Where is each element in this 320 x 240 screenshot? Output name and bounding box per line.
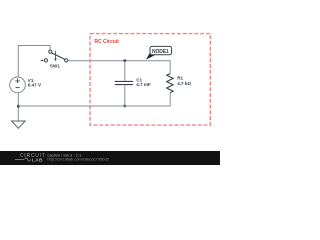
svg-text:6.47 V: 6.47 V [28,83,42,88]
svg-text:NODE1: NODE1 [152,49,169,55]
svg-text:http://circuitlab.com/c6bcdc79: http://circuitlab.com/c6bcdc795bd2 [47,157,109,162]
wire capacitor top [124,61,126,81]
footer logo CIRCUIT LAB [15,153,46,163]
voltage source V1 [10,77,26,93]
wire from switch to RC network top [68,61,170,74]
footer bar [0,151,220,165]
RC Circuit dashed box [90,34,210,126]
wire from V1 bottom to ground junction [17,93,19,121]
svg-text:SW1: SW1 [50,64,61,69]
NODE1 callout box [150,46,172,54]
label C1 value [136,78,151,88]
switch SW1 [41,50,68,62]
NODE1 callout tail [146,54,156,60]
junction dot at capacitor top [123,59,126,62]
ground [12,121,26,128]
svg-text:R1: R1 [177,75,183,80]
junction dot at capacitor bottom [123,105,126,108]
svg-text:4.7 kΩ: 4.7 kΩ [177,81,191,86]
junction dot at V1 bottom [17,105,20,108]
wire from V1 top up and right to switch [18,46,50,78]
svg-text:RC Circuit: RC Circuit [94,39,119,45]
svg-text:LAB: LAB [32,157,43,163]
label R1 value [177,75,191,86]
label V1 value [28,78,42,87]
capacitor C1 [115,81,133,84]
svg-text:4.7 mF: 4.7 mF [136,82,151,87]
wire capacitor bottom [124,85,126,106]
wire resistor bottom and bottom rail [18,93,170,106]
resistor R1 [167,74,173,93]
